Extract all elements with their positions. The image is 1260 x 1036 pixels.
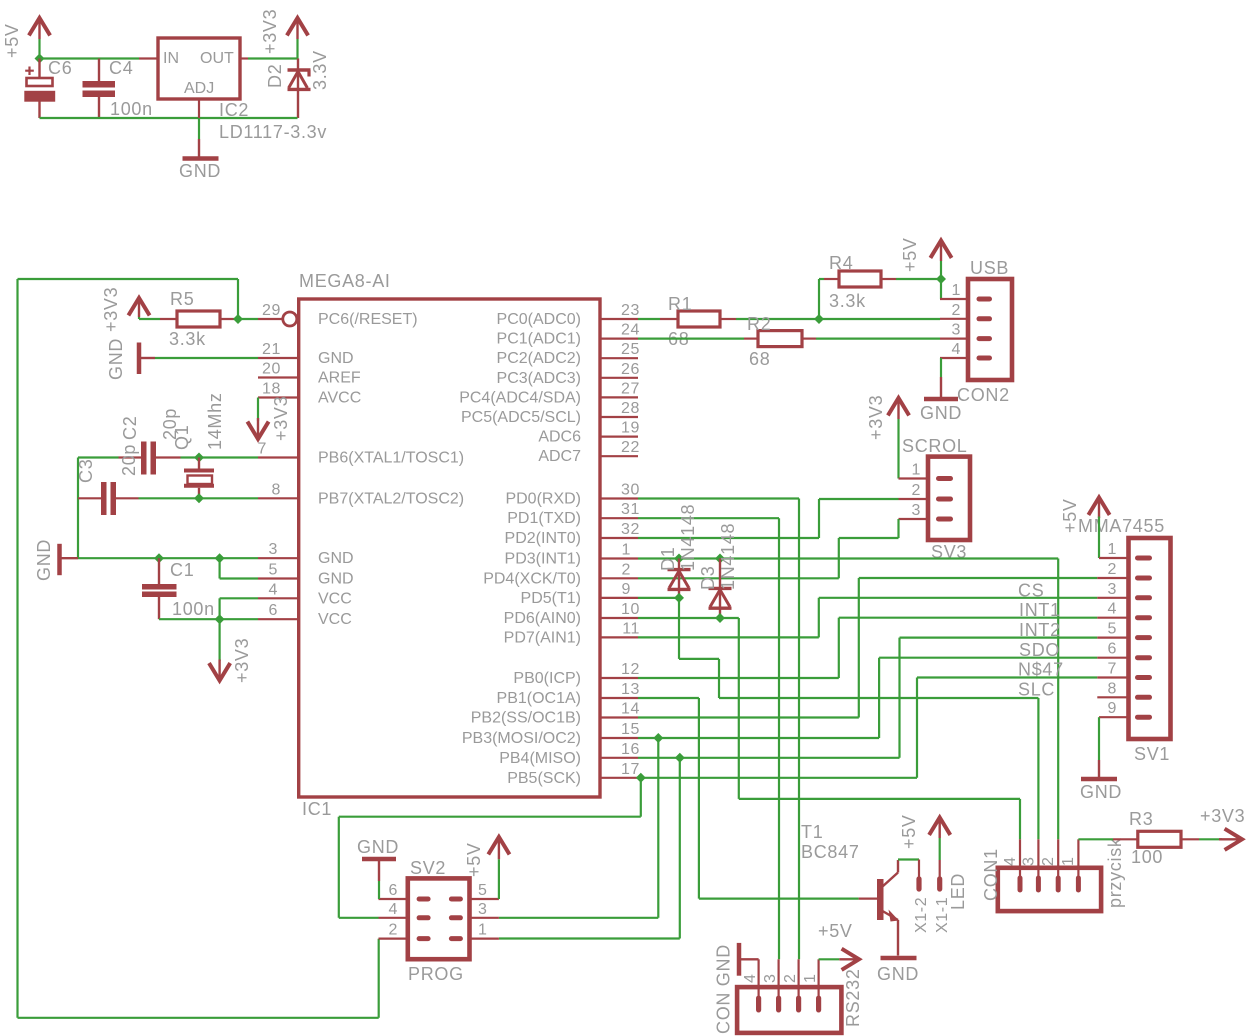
- svg-text:2: 2: [1108, 561, 1118, 578]
- connector USB CON2 box: [968, 279, 1012, 380]
- wire PB4 MISO to INT2 and SV2 pin1: [499, 638, 1097, 939]
- svg-text:100n: 100n: [110, 99, 153, 119]
- svg-text:30: 30: [621, 482, 640, 499]
- svg-text:ADC6: ADC6: [538, 429, 581, 446]
- svg-text:6: 6: [269, 602, 279, 619]
- svg-text:2: 2: [389, 922, 399, 939]
- wire ground rail y118: [40, 117, 298, 119]
- resistor R3: [1113, 831, 1199, 847]
- svg-text:MEGA8-AI: MEGA8-AI: [299, 271, 391, 291]
- svg-text:AREF: AREF: [318, 370, 361, 387]
- svg-text:PB0(ICP): PB0(ICP): [513, 670, 581, 687]
- svg-text:GND: GND: [318, 571, 354, 588]
- svg-text:PROG: PROG: [408, 964, 464, 984]
- svg-text:R5: R5: [170, 289, 194, 309]
- svg-text:GND: GND: [920, 403, 962, 423]
- svg-text:SCROL: SCROL: [902, 436, 968, 456]
- svg-text:4: 4: [389, 901, 399, 918]
- svg-text:14: 14: [621, 701, 640, 718]
- svg-text:GND: GND: [877, 964, 919, 984]
- wire X1-1 to +5V: [939, 838, 941, 860]
- ground T1: [881, 956, 917, 961]
- svg-text:PD1(TXD): PD1(TXD): [507, 510, 581, 527]
- pin X1-1: [937, 860, 942, 892]
- connector SV2 box: [408, 878, 470, 959]
- RS232 pin numbers: [742, 974, 819, 984]
- svg-text:PC5(ADC5/SCL): PC5(ADC5/SCL): [461, 409, 581, 426]
- right side pins of IC1: [600, 319, 638, 778]
- svg-text:IC2: IC2: [219, 100, 249, 120]
- svg-text:2: 2: [1040, 857, 1057, 867]
- junction vcc/C1: [215, 614, 225, 624]
- svg-text:25: 25: [621, 341, 640, 358]
- junction MOSI branch: [653, 733, 663, 743]
- svg-text:3.3V: 3.3V: [310, 50, 330, 90]
- svg-text:IC1: IC1: [302, 799, 332, 819]
- wire PC1 to R2: [638, 338, 744, 340]
- wire USB pin4 to gnd: [940, 358, 942, 377]
- ground RS232 pin4: [739, 943, 759, 976]
- svg-text:VCC: VCC: [318, 590, 352, 607]
- svg-text:19: 19: [621, 420, 640, 437]
- diode D1 1N4148: [668, 559, 691, 598]
- svg-text:3: 3: [1021, 857, 1038, 867]
- pin C3 right: [78, 497, 101, 499]
- junction SCK branch: [636, 773, 646, 783]
- svg-text:16: 16: [621, 741, 640, 758]
- svg-text:32: 32: [621, 521, 640, 538]
- wire +5V to SV1 pin1: [1098, 517, 1100, 559]
- svg-text:GND: GND: [179, 161, 221, 181]
- svg-text:8: 8: [1108, 680, 1118, 697]
- svg-text:PC1(ADC1): PC1(ADC1): [497, 331, 581, 348]
- wire D1 jog to SLC row: [679, 598, 1038, 839]
- svg-text:LED: LED: [948, 873, 968, 910]
- svg-text:ADJ: ADJ: [184, 80, 214, 97]
- svg-text:1: 1: [1108, 541, 1118, 558]
- wire xtal1 net: [78, 458, 258, 559]
- svg-text:+5V: +5V: [900, 237, 920, 272]
- svg-text:SLC: SLC: [1018, 680, 1055, 700]
- svg-text:+3V3: +3V3: [1200, 806, 1245, 826]
- svg-text:3: 3: [912, 502, 922, 519]
- svg-text:GND: GND: [318, 550, 354, 567]
- supply +5V arrow at SV1: [1088, 498, 1109, 519]
- svg-text:ADC7: ADC7: [538, 448, 581, 465]
- svg-text:2: 2: [912, 482, 922, 499]
- svg-text:CS: CS: [1018, 581, 1044, 601]
- svg-text:VCC: VCC: [318, 611, 352, 628]
- svg-text:CON1: CON1: [981, 848, 1001, 901]
- svg-text:R1: R1: [668, 294, 692, 314]
- wire collector to X1-2: [898, 858, 919, 860]
- svg-text:15: 15: [621, 721, 640, 738]
- svg-text:R2: R2: [747, 314, 771, 334]
- pin C2 right: [119, 456, 142, 458]
- pin 18 AVCC: [258, 396, 299, 398]
- IC IC1 MEGA8-AI box: [299, 299, 600, 797]
- capacitor C6 polarized: [25, 59, 54, 119]
- svg-text:21: 21: [262, 341, 281, 358]
- USB pins: [940, 299, 968, 358]
- junction MISO branch: [675, 753, 685, 763]
- svg-text:+5V: +5V: [2, 23, 22, 58]
- wire +5V to SV2 pin5: [498, 859, 500, 899]
- svg-text:18: 18: [262, 381, 281, 398]
- ground at pin 21: [139, 343, 155, 375]
- SV3 pads: [936, 476, 953, 522]
- svg-text:+3V3: +3V3: [271, 396, 291, 441]
- svg-text:C3: C3: [76, 459, 96, 483]
- pin 8 PB7: [258, 497, 299, 499]
- wire PB0 to INT1: [638, 618, 1097, 678]
- svg-text:100n: 100n: [172, 599, 215, 619]
- supply +5V arrow at USB: [930, 241, 951, 262]
- supply +5V arrow at LED: [929, 818, 950, 839]
- svg-text:PC3(ADC3): PC3(ADC3): [497, 370, 581, 387]
- wire +5V to junction: [940, 261, 942, 279]
- svg-text:GND: GND: [318, 350, 354, 367]
- ground SV1: [1081, 760, 1117, 779]
- pin IN: [139, 57, 158, 59]
- capacitor C3: [101, 482, 116, 515]
- svg-text:9: 9: [1108, 700, 1118, 717]
- svg-text:3: 3: [269, 541, 279, 558]
- svg-text:+5V: +5V: [1060, 498, 1080, 533]
- diode D3 1N4148: [709, 559, 732, 619]
- pin 4 VCC: [258, 597, 299, 599]
- wire +3V3 to SV3 pin1: [897, 419, 899, 479]
- svg-text:PC6(/RESET): PC6(/RESET): [318, 311, 418, 328]
- wire RS232 pin1 to +5V: [819, 958, 840, 960]
- pin X1-2: [916, 860, 921, 892]
- junction D1 top: [674, 554, 684, 564]
- resistor R2: [744, 331, 816, 347]
- svg-text:INT2: INT2: [1019, 620, 1061, 640]
- svg-text:GND: GND: [357, 837, 399, 857]
- svg-text:20p: 20p: [119, 444, 139, 476]
- capacitor C4: [83, 59, 116, 119]
- resistor R5: [160, 311, 238, 327]
- svg-text:28: 28: [621, 400, 640, 417]
- svg-text:6: 6: [389, 882, 399, 899]
- junction D1 bottom: [674, 593, 684, 603]
- svg-text:1: 1: [952, 282, 962, 299]
- svg-text:LD1117-3.3v: LD1117-3.3v: [219, 122, 327, 142]
- svg-text:+5V: +5V: [899, 814, 919, 849]
- diode D2 zener: [288, 59, 311, 119]
- svg-text:20: 20: [262, 361, 281, 378]
- svg-text:GND: GND: [1080, 782, 1122, 802]
- resistor R4: [824, 271, 896, 287]
- junction R1/R4: [814, 314, 824, 324]
- capacitor C2: [141, 442, 156, 475]
- wire CON1 pin1 to R3: [1078, 838, 1113, 840]
- wire PD6 to CON1 pin4: [638, 618, 1020, 839]
- ground USB: [924, 377, 958, 399]
- pin 21 GND: [258, 357, 299, 359]
- svg-text:27: 27: [621, 380, 640, 397]
- connector SV3 box: [928, 457, 970, 540]
- svg-text:4: 4: [952, 341, 962, 358]
- svg-text:+3V3: +3V3: [101, 287, 121, 332]
- pin 6 VCC: [258, 618, 299, 620]
- wire PD2 to SV3 pin2: [638, 499, 899, 538]
- svg-text:+5V: +5V: [818, 921, 853, 941]
- svg-text:C6: C6: [48, 58, 72, 78]
- svg-text:31: 31: [621, 501, 640, 518]
- junction xtal1/Q1: [194, 453, 204, 463]
- wire PD7 to CS: [638, 598, 1097, 638]
- svg-text:3: 3: [1108, 581, 1118, 598]
- supply +3V3 arrow at SCROL: [888, 398, 909, 419]
- svg-text:1: 1: [802, 974, 819, 984]
- wire PB3 MOSI to SDO and SV2 pin3: [499, 658, 1097, 918]
- svg-text:PD3(INT1): PD3(INT1): [505, 551, 581, 568]
- svg-text:1: 1: [1060, 857, 1077, 867]
- svg-text:Q1: Q1: [172, 425, 192, 450]
- svg-text:SV2: SV2: [410, 858, 446, 878]
- wire PC0 to R1: [638, 318, 660, 320]
- svg-text:PB1(OC1A): PB1(OC1A): [497, 690, 581, 707]
- wire R2 to USB pin3: [816, 338, 940, 340]
- svg-text:R3: R3: [1129, 809, 1153, 829]
- svg-text:OUT: OUT: [200, 50, 234, 67]
- svg-text:1N4148: 1N4148: [718, 523, 738, 590]
- junction +5V/C6: [35, 54, 45, 64]
- svg-text:USB: USB: [970, 258, 1009, 278]
- junction gnd/C1: [154, 553, 164, 563]
- wire vcc net: [159, 598, 258, 661]
- connector CON1 box: [998, 868, 1101, 911]
- RS232 pads: [756, 996, 821, 1013]
- wire gnd to pin21: [155, 357, 258, 359]
- wire PD1 TXD to RS232 pin3: [638, 518, 779, 959]
- svg-text:4: 4: [1002, 857, 1019, 867]
- svg-text:IN: IN: [163, 50, 179, 67]
- svg-text:14Mhz: 14Mhz: [205, 392, 225, 450]
- svg-text:PD2(INT0): PD2(INT0): [505, 530, 581, 547]
- RS232 pins: [759, 959, 819, 997]
- SV1 pin numbers: [1108, 541, 1118, 717]
- pin 29 PC6(/RESET): [258, 312, 297, 326]
- svg-text:1: 1: [478, 922, 488, 939]
- svg-text:4: 4: [742, 974, 759, 984]
- svg-text:PC4(ADC4/SDA): PC4(ADC4/SDA): [459, 389, 581, 406]
- pin 7 PB6: [258, 456, 299, 458]
- capacitor C1: [142, 558, 177, 619]
- svg-text:11: 11: [622, 620, 640, 637]
- svg-text:PB6(XTAL1/TOSC1): PB6(XTAL1/TOSC1): [318, 450, 464, 467]
- wire PD3 INT row to CON1 pin2: [638, 559, 1058, 840]
- wire SV1 pin9 to gnd: [1098, 717, 1100, 760]
- svg-text:+3V3: +3V3: [260, 9, 280, 54]
- pin ADJ: [198, 99, 200, 118]
- svg-text:26: 26: [621, 361, 640, 378]
- junction xtal2/Q1: [194, 493, 204, 503]
- regulator IC2 box: [158, 38, 240, 99]
- svg-text:22: 22: [621, 439, 640, 456]
- svg-text:+3V3: +3V3: [232, 638, 252, 683]
- svg-text:PD0(RXD): PD0(RXD): [505, 491, 581, 508]
- supply +3V3 arrow down at VCC: [209, 660, 230, 681]
- CON1 pads: [1018, 876, 1081, 893]
- right pin numbers: [621, 302, 640, 778]
- svg-text:D2: D2: [265, 64, 285, 88]
- transistor T1 BC847: [859, 860, 899, 956]
- svg-text:PD6(AIN0): PD6(AIN0): [504, 610, 581, 627]
- wire gnd row y558: [78, 558, 258, 578]
- svg-text:4: 4: [1108, 601, 1118, 618]
- SV3 pin numbers: [912, 462, 922, 520]
- svg-text:BC847: BC847: [801, 842, 860, 862]
- svg-text:1N4148: 1N4148: [678, 504, 698, 571]
- svg-text:5: 5: [1108, 621, 1118, 638]
- wire R4 branch: [819, 279, 941, 319]
- supply +3V3 arrow right at R3: [1219, 829, 1242, 850]
- svg-text:2: 2: [952, 302, 962, 319]
- CON1 pin numbers: [1002, 857, 1077, 867]
- crystal Q1: [184, 458, 214, 499]
- wire xtal2 net: [139, 497, 259, 499]
- pin OUT: [240, 57, 248, 59]
- SV2 pins right: [470, 899, 499, 939]
- svg-text:T1: T1: [801, 822, 823, 842]
- svg-text:9: 9: [622, 581, 632, 598]
- SV1 pads: [1135, 556, 1152, 720]
- svg-text:PC2(ADC2): PC2(ADC2): [497, 350, 581, 367]
- wire R1 to USB pin2: [736, 318, 940, 320]
- svg-text:PD5(T1): PD5(T1): [521, 590, 581, 607]
- SV2 pads: [417, 897, 463, 942]
- svg-text:100: 100: [1131, 847, 1163, 867]
- svg-text:PD7(AIN1): PD7(AIN1): [504, 629, 581, 646]
- svg-text:AVCC: AVCC: [318, 390, 361, 407]
- svg-text:6: 6: [1108, 641, 1118, 658]
- svg-text:PB4(MISO): PB4(MISO): [499, 750, 581, 767]
- svg-text:PD4(XCK/T0): PD4(XCK/T0): [483, 570, 581, 587]
- svg-text:PB7(XTAL2/TOSC2): PB7(XTAL2/TOSC2): [318, 490, 464, 507]
- wire PD0 RXD to RS232 pin2: [638, 499, 799, 960]
- svg-text:INT1: INT1: [1019, 600, 1061, 620]
- ground IC2: [183, 139, 219, 159]
- svg-text:12: 12: [621, 661, 640, 678]
- wire PD4 to SV3 pin3: [638, 519, 899, 578]
- svg-text:PB5(SCK): PB5(SCK): [507, 770, 581, 787]
- svg-text:17: 17: [621, 761, 640, 778]
- svg-text:+5V: +5V: [464, 842, 484, 877]
- wire +5V net to IN: [38, 39, 139, 59]
- svg-text:3: 3: [478, 901, 488, 918]
- svg-text:CON GND: CON GND: [714, 944, 734, 1034]
- wire to USB pin1: [940, 279, 942, 299]
- svg-text:R4: R4: [829, 253, 853, 273]
- pin 20 AREF: [258, 376, 299, 378]
- pin 5 GND: [258, 577, 299, 579]
- supply +5V arrow at SV2: [488, 837, 509, 859]
- junction R5/PC6: [233, 314, 243, 324]
- junction D3 bottom: [715, 613, 725, 623]
- wire AVCC to +3V3: [257, 398, 259, 422]
- USB pads: [977, 297, 993, 361]
- ground SV2: [362, 859, 396, 881]
- SV1 pins: [1097, 558, 1128, 717]
- pin 3 GND: [258, 557, 299, 559]
- svg-text:RS232: RS232: [843, 968, 863, 1027]
- svg-text:PC0(ADC0): PC0(ADC0): [497, 311, 581, 328]
- junction gnd/pin5: [215, 553, 225, 563]
- supply +3V3 arrow: [287, 18, 308, 39]
- svg-text:3.3k: 3.3k: [169, 329, 206, 349]
- connector RS232 box: [737, 987, 841, 1033]
- right pin names: [459, 311, 581, 787]
- svg-text:PB2(SS/OC1B): PB2(SS/OC1B): [471, 710, 581, 727]
- svg-text:29: 29: [262, 302, 281, 319]
- svg-text:przycisk: przycisk: [1105, 837, 1125, 908]
- wire ADJ gnd stem: [198, 118, 200, 139]
- wire PB1 to T1 base: [638, 698, 859, 899]
- wire +3V3 to R5: [139, 317, 160, 319]
- svg-text:SDO: SDO: [1019, 640, 1060, 660]
- CON1 pins: [1020, 839, 1078, 876]
- svg-text:8: 8: [272, 481, 282, 498]
- svg-text:5: 5: [478, 882, 488, 899]
- supply +5V arrow: [29, 18, 50, 39]
- svg-text:1: 1: [622, 542, 632, 559]
- svg-text:10: 10: [621, 601, 640, 618]
- svg-text:3: 3: [952, 322, 962, 339]
- wire PB5 SCK to N$47 and SV2 pin4: [339, 678, 1098, 918]
- svg-text:CON2: CON2: [957, 385, 1010, 405]
- svg-text:N$47: N$47: [1018, 660, 1064, 680]
- svg-text:7: 7: [258, 441, 268, 458]
- svg-text:24: 24: [621, 322, 640, 339]
- wire reset net: [18, 279, 379, 1018]
- connector SV1 box: [1129, 538, 1171, 739]
- USB pin numbers: [952, 282, 962, 358]
- wire OUT to +3V3: [248, 39, 298, 59]
- svg-text:C4: C4: [109, 58, 133, 78]
- wire PB2 to SV1 pin2: [638, 578, 1097, 718]
- svg-text:D1: D1: [658, 547, 678, 571]
- ground left of C1: [60, 544, 79, 575]
- svg-text:MMA7455: MMA7455: [1078, 516, 1165, 536]
- svg-text:PB3(MOSI/OC2): PB3(MOSI/OC2): [462, 730, 581, 747]
- svg-text:+3V3: +3V3: [866, 395, 886, 440]
- junction +5V/USB pin1: [936, 274, 946, 284]
- svg-text:4: 4: [269, 581, 279, 598]
- svg-text:13: 13: [621, 681, 640, 698]
- junction D3 top: [715, 554, 725, 564]
- svg-text:68: 68: [749, 349, 770, 369]
- svg-text:1: 1: [912, 462, 922, 479]
- svg-text:2: 2: [622, 561, 632, 578]
- svg-text:D3: D3: [698, 566, 718, 590]
- svg-text:GND: GND: [34, 539, 54, 581]
- resistor R1: [660, 311, 736, 327]
- svg-text:3: 3: [762, 974, 779, 984]
- svg-text:7: 7: [1108, 661, 1118, 678]
- svg-text:C1: C1: [170, 560, 194, 580]
- svg-text:2: 2: [782, 974, 799, 984]
- svg-text:GND: GND: [106, 338, 126, 380]
- supply +3V3 arrow down at AVCC: [247, 418, 268, 439]
- wire PD5 to D1: [638, 597, 679, 599]
- svg-text:23: 23: [621, 302, 640, 319]
- supply +5V arrow right at RS232: [839, 949, 859, 970]
- wire R3 to +3V3: [1199, 838, 1222, 840]
- SV3 pins: [899, 479, 929, 520]
